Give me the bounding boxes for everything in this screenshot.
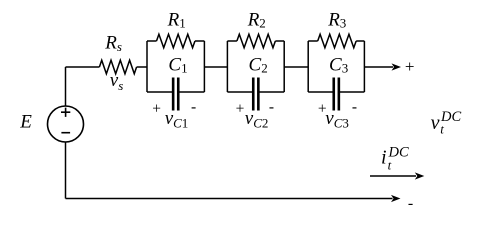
svg-text:i: i: [381, 146, 387, 168]
resistor Rs: [99, 60, 136, 74]
RC block 3 frame wires: [308, 41, 364, 92]
svg-text:+: +: [152, 100, 161, 117]
resistor R3: [318, 34, 356, 48]
label vtDC: [431, 109, 462, 136]
wire: top rail to Rs: [66, 66, 100, 68]
wire: block 1 to block 2: [204, 66, 227, 68]
label itDC: [381, 145, 409, 173]
svg-text:R1: R1: [167, 9, 186, 30]
capacitor C1: [173, 78, 178, 111]
svg-text:vC1: vC1: [165, 108, 189, 131]
svg-text:DC: DC: [440, 109, 461, 125]
wire: bottom rail with arrowhead: [66, 198, 393, 200]
svg-text:+: +: [236, 100, 245, 117]
RC block 1 frame wires: [147, 41, 204, 92]
svg-text:-: -: [269, 98, 274, 115]
arrow: current direction itDC: [370, 175, 416, 177]
svg-text:v: v: [431, 112, 440, 134]
svg-text:DC: DC: [388, 145, 409, 161]
svg-text:-: -: [191, 98, 196, 115]
RC block 2 frame wires: [227, 41, 284, 92]
svg-text:C1: C1: [168, 54, 187, 75]
resistor R2: [237, 34, 275, 48]
svg-text:C2: C2: [249, 54, 268, 75]
wire: source bottom to bottom rail: [65, 142, 67, 199]
svg-text:vs: vs: [110, 70, 124, 93]
svg-text:-: -: [408, 195, 413, 212]
svg-text:vC2: vC2: [245, 108, 269, 131]
svg-text:R3: R3: [327, 9, 346, 30]
svg-text:-: -: [352, 98, 357, 115]
resistor R1: [157, 34, 195, 48]
svg-text:vC3: vC3: [325, 108, 349, 131]
svg-text:Rs: Rs: [104, 33, 122, 55]
svg-text:C3: C3: [329, 54, 348, 75]
arrowhead: top output: [392, 63, 402, 70]
voltage source E: [48, 106, 84, 142]
svg-text:E: E: [19, 112, 32, 133]
wire: Rs to block 1: [137, 66, 147, 68]
arrowhead: itDC arrow: [415, 172, 425, 179]
capacitor C3: [334, 78, 339, 111]
svg-text:R2: R2: [247, 9, 266, 30]
svg-text:+: +: [405, 57, 415, 76]
wire: source top to top rail: [65, 67, 67, 106]
arrowhead: bottom rail: [391, 195, 401, 202]
capacitor C2: [253, 78, 258, 111]
wire: output lead with arrowhead: [364, 66, 393, 68]
wire: block 2 to block 3: [284, 66, 308, 68]
